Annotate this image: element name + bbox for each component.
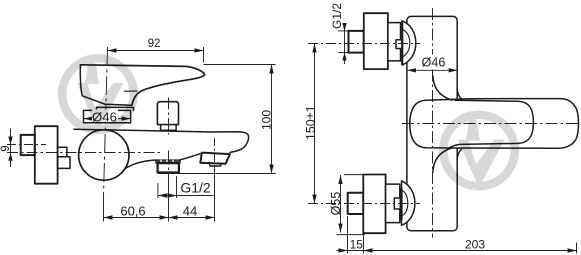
diverter axis <box>214 138 216 166</box>
G1/2 top dim line <box>344 26 346 64</box>
svg-text:Ø46: Ø46 <box>422 56 446 70</box>
body sphere <box>79 130 129 180</box>
vertical centerline <box>432 8 434 238</box>
svg-text:9: 9 <box>0 145 12 151</box>
top connector: hex detail <box>396 40 402 49</box>
shower outlet bottom body <box>158 163 179 172</box>
o46 arrows <box>407 68 416 72</box>
left view centerlines <box>7 47 215 199</box>
top connector: pipe <box>349 31 364 53</box>
svg-text:G1/2: G1/2 <box>180 180 211 196</box>
top connector: flange <box>364 13 388 69</box>
cartridge axis dash-dot <box>103 47 107 199</box>
svg-text:Ø55: Ø55 <box>329 192 343 216</box>
spout front <box>410 99 579 149</box>
svg-text:92: 92 <box>148 38 161 50</box>
svg-text:15: 15 <box>350 237 364 251</box>
eccentric connector lower <box>58 157 70 169</box>
diverter tab <box>209 164 221 166</box>
top connector: nut <box>388 23 401 61</box>
o55 dim line <box>340 175 342 233</box>
92 arrows <box>108 48 117 52</box>
dimension texts right view <box>304 3 485 252</box>
dim 92 line <box>108 50 204 52</box>
bottom connector axis <box>308 203 420 205</box>
G1/2 arrows <box>158 193 167 197</box>
outlet axis <box>168 151 170 179</box>
svg-text:60,6: 60,6 <box>120 204 145 219</box>
body horizontal axis <box>7 152 160 154</box>
dim o46 line <box>84 118 131 120</box>
top connector axis <box>168 98 170 135</box>
body right edge fillet top <box>457 89 462 100</box>
shower outlet bottom collar (thread) <box>156 160 181 163</box>
dim 9 line <box>10 129 12 168</box>
spout belly left of outlet <box>126 160 156 168</box>
wall pipe stub <box>21 135 35 155</box>
o55 arrows <box>338 175 342 184</box>
shower connector top <box>157 102 178 125</box>
150 dim line <box>314 44 316 204</box>
svg-text:44: 44 <box>183 204 197 219</box>
svg-text:100: 100 <box>259 110 273 130</box>
44 arrows <box>169 215 178 219</box>
dim 100 line <box>271 65 273 174</box>
svg-text:150±1: 150±1 <box>304 105 318 140</box>
svg-text:G1/2: G1/2 <box>330 3 344 29</box>
handle capsule <box>450 100 534 148</box>
right view centerlines <box>308 8 580 238</box>
lever handle <box>80 65 105 104</box>
203 arrows <box>364 248 373 252</box>
dim 92 right extension <box>203 47 205 63</box>
top connector: bell <box>402 21 416 65</box>
o46 dim line <box>407 69 458 71</box>
cartridge collar <box>97 107 134 110</box>
dim bottom line <box>104 217 215 219</box>
G1/2 arrows <box>342 23 346 31</box>
top connector axis <box>308 43 420 45</box>
bottom connector: bell <box>402 181 415 226</box>
15 arrow left <box>339 248 348 252</box>
dimension texts left view <box>0 38 273 219</box>
bottom connector: hex detail <box>394 198 400 209</box>
dim 100 extensions <box>204 64 276 66</box>
bottom extensions <box>347 216 349 254</box>
label 92 <box>146 38 163 49</box>
svg-text:203: 203 <box>465 237 485 251</box>
60,6 arrows <box>104 215 113 219</box>
label O46 left <box>92 110 118 122</box>
100 arrows <box>269 65 273 74</box>
label O46 right <box>420 55 447 67</box>
o46 arrows outward <box>84 116 93 120</box>
dome arc lower <box>433 148 452 172</box>
bottom connector: pipe <box>348 193 364 214</box>
escutcheon plate <box>84 110 131 122</box>
watermark left <box>58 54 138 134</box>
150 arrows <box>312 44 316 53</box>
bottom connector: nut <box>386 184 400 223</box>
dome arc upper <box>433 76 452 100</box>
dim bottom extensions <box>103 199 105 222</box>
body right edge fillet bottom <box>457 149 462 160</box>
9 arrows inward from outside <box>8 137 12 145</box>
diverter bracket <box>200 153 230 164</box>
bottom connector: flange <box>363 175 385 234</box>
pipe stub axis <box>7 144 46 146</box>
body <box>407 16 457 230</box>
spout belly right of outlet <box>180 153 201 160</box>
wall flange <box>35 126 58 184</box>
bottom dim line <box>337 250 577 252</box>
G1/2 leader <box>158 195 214 197</box>
horizontal centerline <box>402 123 580 125</box>
eccentric connector upper <box>58 147 67 156</box>
lever seam tick <box>124 90 137 92</box>
arrowheads left view <box>8 48 273 219</box>
arrowheads right view <box>312 23 576 253</box>
spout top and tip <box>74 129 249 152</box>
watermark right <box>439 111 519 191</box>
